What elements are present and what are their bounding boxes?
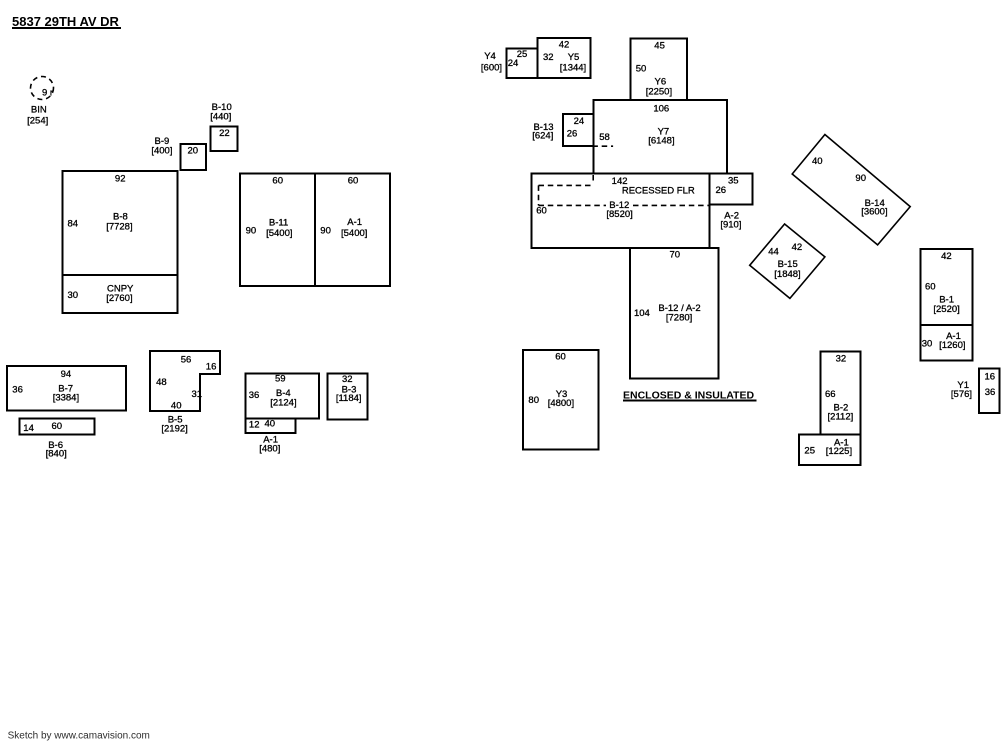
building B-12 [8520] RECESSED FLR — [532, 174, 710, 248]
svg-text:32: 32 — [543, 52, 554, 63]
svg-text:RECESSED FLR: RECESSED FLR — [622, 186, 695, 197]
svg-text:[840]: [840] — [46, 448, 67, 459]
svg-text:[480]: [480] — [259, 443, 280, 454]
building B-10 [440] rect 22 — [210, 102, 237, 151]
building Y6 [2250] — [631, 38, 687, 100]
svg-text:[8520]: [8520] — [606, 209, 632, 220]
note ENCLOSED & INSULATED — [623, 389, 756, 401]
svg-text:[6148]: [6148] — [648, 135, 674, 146]
svg-text:[5400]: [5400] — [266, 228, 292, 239]
svg-text:[2124]: [2124] — [270, 397, 296, 408]
svg-text:60: 60 — [348, 176, 359, 187]
building B-1 [2520] / A-1 [1260] — [921, 249, 973, 361]
svg-text:12: 12 — [249, 420, 260, 431]
svg-text:20: 20 — [188, 145, 199, 156]
dashed recessed floor outline inside B-12 — [539, 175, 710, 205]
svg-text:[2760]: [2760] — [106, 293, 132, 304]
building B-13 [624] — [532, 114, 593, 146]
building B-12 / A-2 [7280] — [630, 248, 719, 378]
building Y1 [576] — [951, 368, 999, 413]
svg-text:[5400]: [5400] — [341, 228, 367, 239]
svg-text:[400]: [400] — [151, 146, 172, 157]
building Y4 [600] — [481, 48, 537, 78]
svg-text:Y4: Y4 — [484, 51, 496, 62]
svg-text:[600]: [600] — [481, 63, 502, 74]
svg-text:16: 16 — [206, 362, 217, 373]
svg-text:32: 32 — [836, 354, 847, 365]
svg-text:[7280]: [7280] — [666, 312, 692, 323]
svg-text:25: 25 — [517, 49, 528, 60]
building B-11 [5400] / A-1 [5400] — [240, 173, 390, 286]
building B-2 [2112] — [820, 351, 860, 434]
svg-text:[254]: [254] — [27, 115, 48, 126]
svg-text:A-1: A-1 — [347, 217, 362, 228]
svg-text:36: 36 — [12, 385, 23, 396]
building B-6 [840] — [19, 419, 94, 460]
svg-text:42: 42 — [941, 251, 952, 262]
title 5837 29TH AV DR — [12, 14, 121, 29]
building Y5 [1344] — [537, 38, 590, 78]
building Y7 [6148] — [593, 100, 727, 173]
svg-text:90: 90 — [855, 173, 866, 184]
svg-text:106: 106 — [653, 103, 669, 114]
svg-text:5837 29TH AV DR: 5837 29TH AV DR — [12, 14, 120, 29]
svg-text:[1848]: [1848] — [774, 269, 800, 280]
building A-1 [1225] — [799, 435, 861, 466]
svg-text:60: 60 — [52, 421, 63, 432]
building B-7 [3384] — [7, 366, 126, 411]
svg-text:30: 30 — [922, 338, 933, 349]
svg-text:60: 60 — [272, 176, 283, 187]
svg-text:Sketch by www.camavision.com: Sketch by www.camavision.com — [8, 731, 150, 742]
svg-text:45: 45 — [654, 41, 665, 52]
svg-text:60: 60 — [555, 351, 566, 362]
svg-text:44: 44 — [768, 246, 779, 257]
building B-14 [3600] rotated — [792, 135, 910, 245]
svg-text:60: 60 — [536, 206, 547, 217]
svg-text:42: 42 — [559, 39, 570, 50]
svg-text:[624]: [624] — [532, 131, 553, 142]
svg-text:[1225]: [1225] — [826, 446, 852, 457]
svg-text:42: 42 — [792, 242, 803, 253]
svg-text:40: 40 — [265, 418, 276, 429]
svg-text:[2250]: [2250] — [646, 87, 672, 98]
svg-text:36: 36 — [985, 387, 996, 398]
building A-2 [910] — [710, 174, 753, 231]
footer Sketch by www.camavision.com — [8, 731, 150, 742]
svg-text:[3600]: [3600] — [861, 207, 887, 218]
building B-8 [7728] with CNPY [2760] — [62, 171, 177, 313]
svg-text:94: 94 — [61, 369, 72, 380]
svg-text:9 r: 9 r — [42, 88, 53, 99]
svg-text:50: 50 — [636, 64, 647, 75]
svg-text:104: 104 — [634, 308, 650, 319]
svg-text:[2112]: [2112] — [828, 411, 854, 422]
svg-text:[1260]: [1260] — [939, 340, 965, 351]
svg-text:[1344]: [1344] — [560, 62, 586, 73]
svg-text:40: 40 — [812, 156, 823, 167]
svg-text:90: 90 — [246, 226, 257, 237]
svg-text:BIN: BIN — [31, 104, 47, 115]
building B-5 [2192] L-shape — [150, 351, 220, 435]
svg-text:36: 36 — [249, 390, 260, 401]
svg-text:[1184]: [1184] — [336, 393, 362, 404]
svg-text:[576]: [576] — [951, 389, 972, 400]
building Y3 [4800] — [523, 350, 599, 449]
svg-text:90: 90 — [320, 226, 331, 237]
svg-text:58: 58 — [599, 132, 610, 143]
svg-text:22: 22 — [219, 128, 230, 139]
svg-text:80: 80 — [528, 395, 539, 406]
svg-text:14: 14 — [23, 423, 34, 434]
building B-4 [2124] — [245, 373, 318, 418]
svg-text:25: 25 — [804, 446, 815, 457]
svg-text:66: 66 — [825, 389, 836, 400]
svg-text:40: 40 — [171, 400, 182, 411]
svg-text:48: 48 — [156, 377, 167, 388]
svg-text:35: 35 — [728, 176, 739, 187]
svg-text:26: 26 — [567, 129, 578, 140]
svg-text:[2192]: [2192] — [161, 424, 187, 435]
svg-text:56: 56 — [181, 354, 192, 365]
svg-text:Y5: Y5 — [568, 52, 580, 63]
bin circle BIN [254] — [27, 77, 53, 127]
svg-text:[910]: [910] — [720, 220, 741, 231]
dimension 58 with hidden dashed edge — [592, 132, 613, 146]
svg-text:59: 59 — [275, 374, 286, 385]
svg-text:24: 24 — [508, 58, 519, 69]
svg-text:[440]: [440] — [210, 111, 231, 122]
svg-text:70: 70 — [670, 250, 681, 261]
svg-text:30: 30 — [68, 290, 79, 301]
svg-text:[3384]: [3384] — [53, 392, 79, 403]
svg-text:92: 92 — [115, 174, 126, 185]
building A-1 [480] under B-4 — [245, 418, 295, 454]
svg-text:B-11: B-11 — [269, 217, 288, 228]
svg-text:16: 16 — [985, 372, 996, 383]
building B-15 [1848] rotated — [750, 224, 825, 298]
svg-text:[4800]: [4800] — [548, 398, 574, 409]
svg-text:24: 24 — [574, 116, 585, 127]
svg-text:[7728]: [7728] — [106, 221, 132, 232]
building B-9 [400] rect 20 — [151, 136, 205, 170]
building B-3 [1184] — [328, 373, 368, 419]
svg-text:26: 26 — [716, 185, 727, 196]
svg-text:60: 60 — [925, 282, 936, 293]
svg-text:84: 84 — [68, 218, 79, 229]
svg-text:[2520]: [2520] — [933, 304, 959, 315]
svg-text:32: 32 — [342, 374, 353, 385]
svg-text:31: 31 — [192, 389, 203, 400]
